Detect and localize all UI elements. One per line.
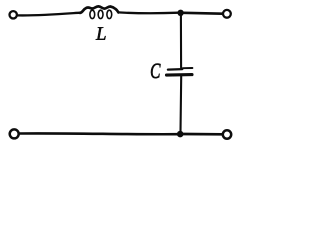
wire top-left to inductor [18,13,80,16]
terminal top-right [223,10,231,18]
wire bottom-left to junction [19,132,177,135]
wire junction to top-right terminal [183,12,222,15]
terminal top-left [10,11,17,18]
wire top junction down to capacitor [180,14,182,68]
inductor L1 coil [80,6,118,13]
capacitor C1 top plate right [183,67,193,69]
label C [151,64,161,78]
wire junction to bottom-right terminal [184,133,222,136]
capacitor C1 top plate left [168,68,182,71]
terminal bottom-right [223,130,231,138]
inductor loop 2 [98,10,103,18]
inductor loop 1 [90,10,95,18]
inductor loop 3 [107,10,112,18]
terminal bottom-left [10,129,19,138]
wire capacitor down to bottom junction [179,76,182,132]
capacitor C1 bottom plate [167,73,193,77]
label L [96,27,106,39]
junction bottom node [177,131,184,138]
wire inductor to top junction [118,11,178,14]
junction top node [177,10,183,16]
